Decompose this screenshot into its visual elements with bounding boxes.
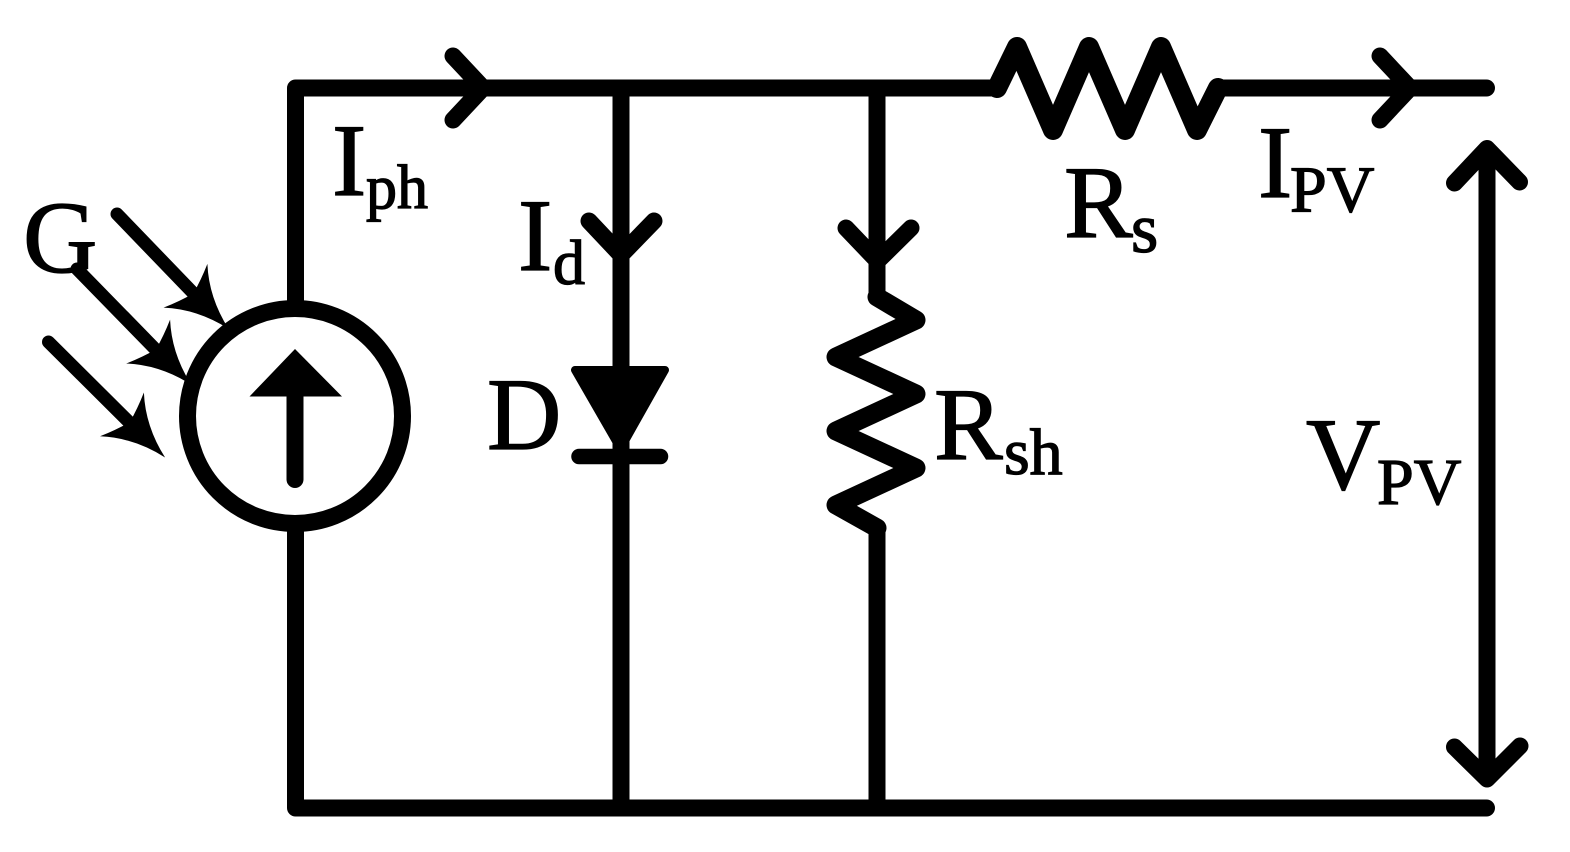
svg-text:s: s <box>1131 191 1158 268</box>
svg-text:sh: sh <box>1004 416 1063 489</box>
svg-text:PV: PV <box>1290 154 1374 227</box>
svg-text:PV: PV <box>1377 446 1461 519</box>
svg-text:I: I <box>1258 106 1292 220</box>
svg-text:G: G <box>23 181 97 295</box>
svg-text:I: I <box>332 104 366 218</box>
svg-text:ph: ph <box>366 154 428 222</box>
svg-text:R: R <box>934 368 1003 482</box>
svg-text:R: R <box>1064 146 1133 260</box>
svg-text:V: V <box>1306 398 1380 512</box>
svg-text:I: I <box>518 179 552 293</box>
svg-text:D: D <box>487 358 561 472</box>
svg-text:d: d <box>553 227 585 298</box>
